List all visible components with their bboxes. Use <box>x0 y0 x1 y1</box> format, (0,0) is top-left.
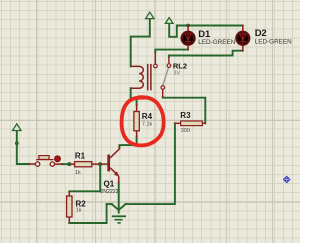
svg-text:LED-GREEN: LED-GREEN <box>198 39 235 46</box>
svg-text:3V: 3V <box>173 71 180 77</box>
svg-text:D2: D2 <box>255 28 267 39</box>
svg-text:R3: R3 <box>180 111 191 120</box>
svg-text:2N2222: 2N2222 <box>100 189 118 195</box>
svg-text:300: 300 <box>181 128 190 134</box>
svg-text:Q1: Q1 <box>104 180 115 189</box>
svg-text:R1: R1 <box>75 151 86 160</box>
svg-text:7.1k: 7.1k <box>142 122 153 128</box>
svg-text:1k: 1k <box>76 208 82 214</box>
svg-text:R4: R4 <box>142 112 153 121</box>
svg-text:RL2: RL2 <box>173 61 187 70</box>
svg-text:1k: 1k <box>75 170 81 176</box>
svg-text:LED-GREEN: LED-GREEN <box>255 38 292 45</box>
